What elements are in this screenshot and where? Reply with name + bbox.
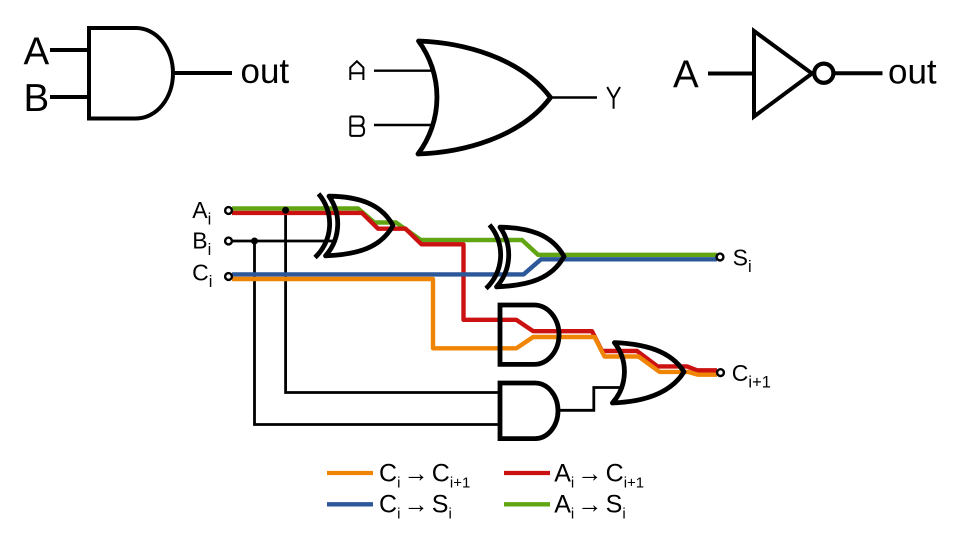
legend swatch orange bbox=[327, 471, 373, 475]
legend swatch green bbox=[504, 502, 550, 506]
wire B to AND demo bbox=[50, 95, 90, 99]
AND gate demo bbox=[89, 28, 173, 119]
wire OR demo output bbox=[552, 96, 597, 98]
wire NOT demo output bbox=[835, 71, 883, 75]
svg-text:Ci→Si: Ci→Si bbox=[379, 491, 452, 523]
wire Bi tap down to AND2 bottom input bbox=[255, 241, 500, 425]
legend swatch blue bbox=[327, 502, 373, 506]
signal path Ai to Si (green) bbox=[232, 208, 717, 254]
junction dot on Bi line bbox=[251, 238, 258, 245]
terminal Si bbox=[717, 254, 724, 261]
svg-text:A: A bbox=[24, 31, 50, 74]
XOR gate 1 bbox=[315, 194, 393, 258]
wire AND demo output bbox=[173, 71, 232, 75]
NOT gate bubble bbox=[814, 64, 833, 83]
label B (OR demo) bbox=[350, 117, 364, 136]
AND gate 2 (black inputs) bbox=[500, 383, 558, 439]
wire AND2 output to OR1 lower input bbox=[556, 388, 622, 411]
wire A to NOT demo bbox=[708, 72, 755, 76]
svg-text:B: B bbox=[24, 77, 50, 120]
label Y (OR demo) bbox=[607, 87, 620, 109]
svg-text:Ai→Si: Ai→Si bbox=[554, 491, 625, 523]
svg-text:A: A bbox=[673, 54, 699, 97]
label A (OR demo) bbox=[350, 61, 363, 80]
XOR gate 2 bbox=[486, 225, 564, 289]
wire A to AND demo bbox=[50, 48, 90, 52]
signal path Ai to Ci+1 (red) bbox=[232, 213, 717, 370]
AND gate 1 (red/orange) bbox=[500, 305, 559, 364]
wire B to OR demo bbox=[374, 124, 433, 126]
wire Ai tap down to AND2 top input bbox=[286, 210, 499, 393]
signal path Ci to Ci+1 (orange) bbox=[232, 279, 717, 375]
terminal Bi bbox=[225, 238, 232, 245]
signal path Ci to Si (blue) bbox=[232, 259, 717, 274]
svg-text:out: out bbox=[888, 53, 937, 92]
legend swatch red bbox=[504, 471, 550, 475]
junction dot on Ai line bbox=[282, 207, 289, 214]
OR gate demo bbox=[418, 41, 551, 154]
wire A to OR demo bbox=[374, 69, 433, 71]
terminal Ai bbox=[225, 207, 232, 214]
terminal Ci bbox=[225, 273, 232, 280]
svg-text:out: out bbox=[241, 52, 290, 91]
wire Bi to XOR1 bbox=[232, 240, 333, 243]
OR gate 1 (carry out) bbox=[612, 343, 684, 403]
terminal Ci+1 bbox=[717, 369, 724, 376]
NOT gate triangle bbox=[754, 31, 812, 117]
